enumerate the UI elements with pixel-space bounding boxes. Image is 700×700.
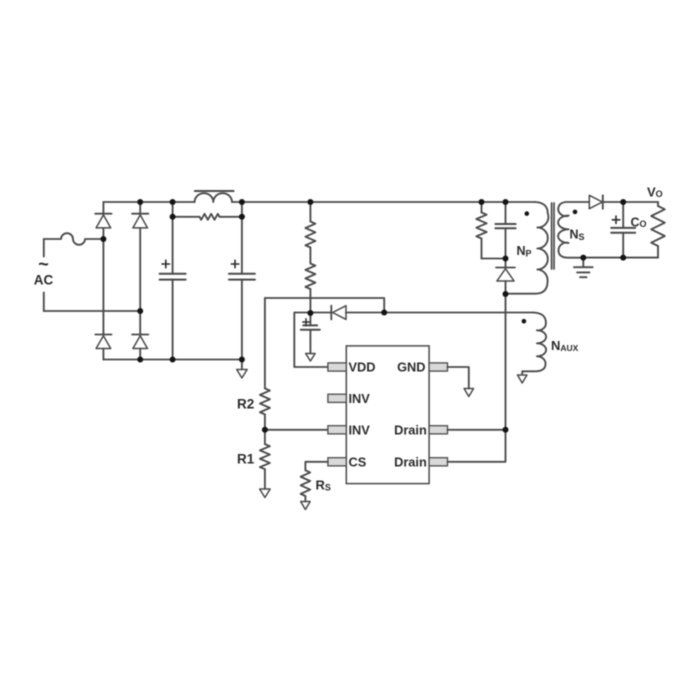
wire: AC hot lead with fuse squiggle xyxy=(44,233,104,245)
node junction 6 at (505.5,202) xyxy=(503,199,509,205)
node junction 14 at (505.5,258.5) xyxy=(503,256,509,262)
resistor R2 xyxy=(264,298,266,388)
ground under R1 xyxy=(260,489,271,498)
pin INV (upper) xyxy=(328,394,346,402)
svg-text:R1: R1 xyxy=(237,452,255,467)
diode D6 (clamp) xyxy=(505,259,507,268)
node junction 22 at (623.2,257.6) xyxy=(620,255,626,261)
svg-text:Drain: Drain xyxy=(394,454,427,469)
wire: bridge column 2 xyxy=(139,202,141,214)
wire: top DC rail xyxy=(103,201,194,203)
svg-text:Drain: Drain xyxy=(394,422,427,437)
node junction 13 at (241.9,216.8) xyxy=(239,214,245,220)
wire: Drain upper xyxy=(448,429,506,431)
resistor RL (load) xyxy=(657,202,659,206)
svg-text:INV: INV xyxy=(349,422,371,437)
node junction 20 at (623.2,202) xyxy=(620,199,626,205)
pin CS xyxy=(328,458,346,466)
svg-text:VDD: VDD xyxy=(349,360,376,375)
diode D2 (bridge top-right) xyxy=(132,213,148,215)
node junction 4 at (310.4,202) xyxy=(307,199,313,205)
transformer core xyxy=(551,203,553,269)
node junction 21 at (583.3,257.6) xyxy=(580,255,586,261)
resistor Rd (choke damper) xyxy=(173,216,200,218)
capacitor C2 (bulk) xyxy=(241,202,243,274)
op-amp U1 (controller IC body) xyxy=(346,346,429,484)
wire: output bottom xyxy=(583,257,658,259)
svg-text:GND: GND xyxy=(397,360,425,375)
wire: primary to drain xyxy=(505,294,507,430)
NAUX polarity dot xyxy=(522,319,527,324)
NS polarity dot xyxy=(573,210,578,215)
winding NAUX (auxiliary) xyxy=(522,313,546,375)
CO polarity + xyxy=(612,216,620,224)
resistor RS (current sense) xyxy=(301,470,311,496)
wire: Drain lower xyxy=(448,430,506,462)
node junction 8 at (140.2,311) xyxy=(137,308,143,314)
ground under RS xyxy=(301,502,311,510)
resistor R1 xyxy=(264,430,266,444)
node junction 16 at (310.4,313) xyxy=(307,310,313,316)
diode D7 (output rectifier) xyxy=(589,195,602,208)
resistor Rst1 (startup upper) xyxy=(309,202,311,222)
C1 polarity + xyxy=(162,260,170,268)
svg-text:AC: AC xyxy=(34,273,54,288)
svg-text:CS: CS xyxy=(349,454,367,469)
node junction 15 at (505.5,294) xyxy=(503,291,509,297)
ground under GND pin xyxy=(464,389,474,397)
wire: bottom DC rail xyxy=(103,359,242,361)
node junction 1 at (140.2,202) xyxy=(137,199,143,205)
pin Drain (upper) xyxy=(429,426,447,434)
capacitor C1 (bulk) xyxy=(172,202,174,274)
ground under Cvdd xyxy=(306,354,316,362)
ground under NAUX xyxy=(517,375,527,383)
node junction 9 at (140.2,359.5) xyxy=(137,357,143,363)
wire: R2 top feed xyxy=(265,298,384,313)
wire: bridge column 1 xyxy=(102,202,104,214)
wire: divider to INV xyxy=(265,429,328,431)
svg-text:INV: INV xyxy=(349,391,371,406)
node junction 2 at (172.6,202) xyxy=(170,199,176,205)
wire: GND pin to ground xyxy=(448,367,469,389)
inductor L1 (filter choke) xyxy=(195,193,232,202)
diode D4 (bridge bottom-right) xyxy=(132,334,148,336)
resistor Rsn (snubber) xyxy=(481,202,483,213)
Cvdd polarity + xyxy=(303,319,309,325)
node junction 5 at (481.5,202) xyxy=(479,199,485,205)
node junction 12 at (172.6,216.8) xyxy=(170,214,176,220)
winding NP (primary) xyxy=(506,202,549,294)
AC source terminals xyxy=(43,239,45,311)
node junction 11 at (241.9,359.5) xyxy=(239,357,245,363)
diode D3 (bridge bottom-left) xyxy=(95,334,111,336)
capacitor CO (output) xyxy=(622,202,624,228)
pin GND xyxy=(429,363,447,371)
NP polarity dot xyxy=(525,211,530,216)
wire: output top xyxy=(623,201,658,203)
pin INV (lower) xyxy=(328,426,346,434)
diode D1 (bridge top-left) xyxy=(95,213,111,215)
wire: aux top xyxy=(384,312,533,314)
resistor Rst2 (startup lower) xyxy=(309,248,311,264)
winding NS (secondary) xyxy=(558,202,589,258)
node junction 18 at (264.9,429.8) xyxy=(262,427,268,433)
wire: VDD pin feed xyxy=(294,313,328,368)
C2 polarity + xyxy=(231,260,239,268)
node junction 19 at (505.5,429.8) xyxy=(503,427,509,433)
wire: snubber bottom xyxy=(482,258,506,260)
capacitor Csn (snubber) xyxy=(505,202,507,224)
node junction 7 at (103.4,239) xyxy=(100,236,106,242)
svg-text:R2: R2 xyxy=(237,397,254,412)
node junction 10 at (172.6,359.5) xyxy=(170,357,176,363)
ground under C2 xyxy=(241,360,243,370)
capacitor Cvdd xyxy=(309,313,311,325)
earth ground (secondary) xyxy=(582,258,584,267)
svg-text:~: ~ xyxy=(38,254,49,274)
diode D5 (VDD rectifier) xyxy=(310,312,331,314)
node junction 3 at (241.9,202) xyxy=(239,199,245,205)
pin Drain (lower) xyxy=(429,458,447,466)
wire: CS to Rs xyxy=(305,462,328,471)
node junction 17 at (384.2,312.5) xyxy=(381,310,387,316)
wire: AC neutral lead xyxy=(44,310,140,312)
pin VDD xyxy=(328,363,346,371)
